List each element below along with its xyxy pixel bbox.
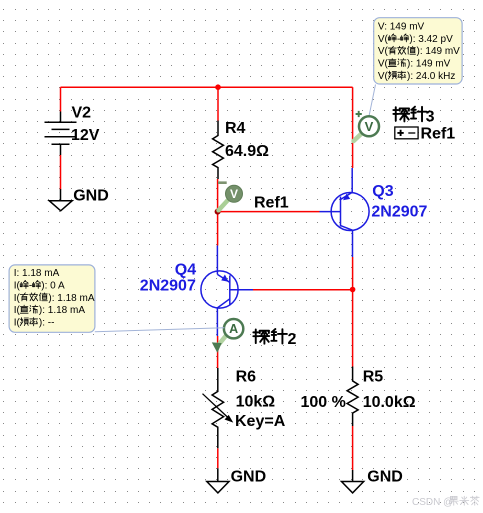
svg-text:Ref1: Ref1: [421, 125, 456, 142]
wire Q3 emitter up: [352, 87, 354, 168]
wire V2 top: [60, 87, 62, 111]
junction top rail R4: [215, 84, 221, 90]
wire V2 bottom to GND: [60, 155, 62, 190]
tooltip3 connector line: [369, 85, 376, 117]
svg-text:-: -: [397, 34, 400, 45]
svg-text:): 24.0 kHz: ): 24.0 kHz: [407, 71, 455, 82]
svg-text:GND: GND: [231, 469, 267, 486]
svg-text:R5: R5: [363, 369, 384, 386]
svg-text:I(: I(: [14, 293, 21, 304]
wire top rail: [61, 86, 353, 88]
svg-text:): 1.18 mA: ): 1.18 mA: [39, 305, 85, 316]
svg-text:I(: I(: [14, 318, 21, 329]
svg-text:V: V: [365, 119, 374, 134]
svg-text:V(: V(: [378, 46, 389, 57]
probe3 circle V: [359, 116, 379, 136]
svg-text:I: 1.18 mA: I: 1.18 mA: [14, 268, 60, 279]
svg-text:V: V: [230, 187, 238, 201]
svg-text:V(: V(: [378, 71, 389, 82]
wire R4 bottom to node Ref1: [217, 179, 219, 212]
svg-text:64.9Ω: 64.9Ω: [225, 143, 269, 160]
probe3 needle: [354, 133, 363, 141]
svg-text:10kΩ: 10kΩ: [236, 394, 276, 411]
transistor Q3: [320, 168, 370, 257]
probe3 plus mark: [356, 111, 362, 117]
svg-text:I(: I(: [14, 305, 21, 316]
junction Q3 collector R5: [350, 287, 356, 293]
wire Q4 base to node: [253, 289, 353, 291]
probe2 needle arrow: [220, 334, 228, 343]
svg-text:Key=A: Key=A: [235, 413, 286, 430]
probe2 circle A: [224, 319, 243, 338]
svg-text:CSDN @: CSDN @: [412, 497, 453, 508]
probe Ref1 needle: [219, 201, 228, 211]
svg-text:V(: V(: [378, 34, 389, 45]
label probe2 (CJK tan zhen 2): [253, 329, 287, 344]
label probe3 (CJK tan zhen 3): [393, 107, 426, 122]
wire node to R5: [352, 290, 354, 367]
R6 wiper arrow: [203, 394, 230, 419]
transistor Q4: [201, 246, 253, 337]
probe Ref1 circle: [226, 185, 243, 202]
Q4 emitter arrow: [221, 275, 228, 282]
svg-text:2: 2: [288, 331, 297, 348]
svg-text:2N2907: 2N2907: [371, 203, 427, 220]
tooltip2 connector line: [95, 328, 225, 332]
svg-text:Q3: Q3: [372, 183, 393, 200]
ground GND1: [49, 189, 72, 211]
svg-text:R4: R4: [225, 120, 246, 137]
svg-text:I(: I(: [14, 280, 21, 291]
svg-text:): 0 A: ): 0 A: [41, 280, 65, 291]
ground GND2: [207, 468, 229, 493]
svg-text:R6: R6: [236, 369, 257, 386]
tooltip voltage probe3: [374, 18, 462, 84]
wire Ref1 node down to Q4: [217, 212, 219, 246]
svg-text:-: -: [29, 280, 32, 291]
svg-text:GND: GND: [367, 469, 403, 486]
resistor R5: [347, 367, 358, 427]
svg-text:V: 149 mV: V: 149 mV: [378, 21, 425, 32]
potentiometer R6: [212, 368, 224, 448]
svg-text:V(: V(: [378, 59, 389, 70]
svg-text:): 149 mV: ): 149 mV: [407, 59, 451, 70]
probe Ref1 minus mark: [218, 181, 227, 184]
wire node Ref1 to Q3 base: [218, 211, 320, 213]
svg-text:): 1.18 mA: ): 1.18 mA: [48, 293, 94, 304]
wire Q3 collector down: [352, 257, 354, 290]
svg-text:A: A: [229, 322, 238, 336]
svg-text:): 149 mV: ): 149 mV: [417, 46, 461, 57]
svg-text:Q4: Q4: [175, 262, 196, 279]
svg-text:V2: V2: [72, 104, 92, 121]
svg-text:100 %: 100 %: [301, 394, 346, 411]
ground GND3: [342, 470, 364, 493]
svg-text:2N2907: 2N2907: [140, 278, 196, 295]
wire R5 bottom: [352, 426, 354, 470]
svg-text:10.0kΩ: 10.0kΩ: [363, 394, 416, 411]
probe3 reference box plus-minus: [395, 127, 418, 139]
svg-text:GND: GND: [73, 188, 109, 205]
svg-text:): --: ): --: [39, 318, 55, 329]
node Ref1 junction: [215, 209, 221, 215]
svg-text:Ref1: Ref1: [254, 195, 289, 212]
wire R4 top: [217, 87, 219, 120]
tooltip current probe2: [9, 265, 95, 332]
svg-text:): 3.42 pV: ): 3.42 pV: [409, 34, 453, 45]
svg-text:12V: 12V: [71, 127, 100, 144]
resistor R4: [213, 121, 224, 180]
Q3 emitter arrow: [343, 194, 350, 201]
battery V2: [45, 112, 77, 156]
wire R6 bottom: [217, 448, 219, 468]
svg-text:3: 3: [426, 109, 435, 126]
wire Q4 collector down to R6: [217, 336, 219, 368]
